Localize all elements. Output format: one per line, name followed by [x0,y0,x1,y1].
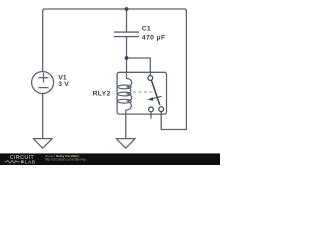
svg-text:LAB: LAB [25,159,36,165]
wire cap bottom to junction [126,37,128,73]
capacitor C1 [114,32,139,37]
relay NO terminal [159,107,164,112]
relay switch blade [151,80,159,105]
wire top rail [43,9,187,130]
svg-text:RLY2: RLY2 [93,91,111,98]
wire branch to switch [127,58,151,76]
watermark bar [0,153,220,165]
svg-text:470 µF: 470 µF [142,35,166,42]
relay actuation dashed link [133,91,153,93]
wire switch NO to right rail [161,112,186,130]
svg-text:3 V: 3 V [58,81,69,88]
relay common terminal [148,76,153,81]
wire coil to ground [125,114,127,139]
relay actuation arrow [147,96,161,100]
ground for relay coil [116,139,135,149]
svg-text:C1: C1 [142,26,151,33]
junction node at top [125,7,129,11]
relay NC stub [150,112,152,119]
watermark logo LAB [21,160,24,163]
voltage source V1 [32,72,54,94]
relay RLY2 box [117,72,166,114]
ground for V1 [33,139,52,149]
watermark logo resistor zigzag [4,160,19,163]
relay coil [118,72,132,114]
junction node below capacitor [125,56,129,60]
wire cap top [126,9,128,32]
svg-text:http://circuitlab.com/c/6hv4xp: http://circuitlab.com/c/6hv4xp [45,158,86,162]
relay NC terminal [149,107,154,112]
wire V1 to ground [42,94,44,139]
